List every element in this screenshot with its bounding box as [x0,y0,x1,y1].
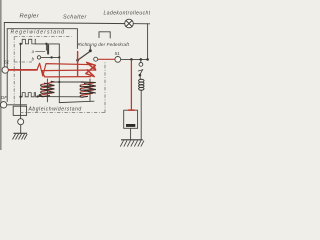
text labels [1,11,154,113]
right coil red loops [81,83,94,96]
switch branch stub [140,59,142,62]
node: right corner junction [146,58,149,61]
wire: coil bottom bus [39,96,80,98]
regulator enclosure box [7,29,77,102]
svg-text:Schalter: Schalter [63,15,87,21]
node: red drop junction [130,58,133,61]
wire: right bus drop to line 51 [147,24,149,59]
svg-text:Richtung der Federkraft: Richtung der Federkraft [78,42,130,47]
switch lever [78,51,90,60]
red arrow tip at box [128,109,134,111]
svg-text:DF: DF [1,95,8,101]
wire: coil top link [51,81,80,83]
wire: relay coil to ground [140,90,142,140]
connector circle left ground branch [18,119,24,125]
dash-dot: inner box top edge [14,36,71,38]
contact a stem [45,44,47,50]
svg-text:Abgleichwiderstand: Abgleichwiderstand [28,107,82,113]
node: relay contact dot [139,74,142,77]
relay lever right [140,70,143,75]
relay coil loops right edge [139,79,144,90]
ground symbol left [13,133,28,139]
node: lever tip dot [89,49,92,52]
red wire from terminal 61 [9,69,37,71]
node: b line to vertical [58,56,60,58]
wire: left bus drop to terminal 61 [3,23,5,67]
lever tick [89,46,91,50]
wire: resistor box stem to ground [130,128,132,139]
contact b line [41,56,60,58]
node: contact b end [50,56,52,58]
wire: stem to ground left [20,125,22,134]
carbon bar inside resistance box [126,124,135,127]
relay contact stub [139,77,141,80]
node: pivot dot [76,59,79,62]
relay upper contact circle [139,63,143,67]
dash-dot: enclosure bottom edge [20,112,105,114]
svg-text:Ladekontrolleuchte: Ladekontrolleuchte [104,11,151,17]
paper background [0,0,150,150]
node: meander2 junction [19,96,21,98]
junction dots [19,43,149,98]
contact a leader line [36,50,46,52]
resistance element box [124,110,138,128]
red pivot post [77,52,79,76]
balancing resistor box [13,106,26,115]
dash-dot enclosure lines [14,37,105,113]
wire: line from terminal 51 to right drop [121,58,148,60]
svg-text:61: 61 [4,60,10,65]
svg-text:Regler: Regler [20,14,40,20]
wire: top supply bus [4,23,150,24]
right coil dark loops [80,85,96,97]
dash-dot: inner box left edge [13,37,15,104]
wire: regulating resistor feed [35,43,59,45]
node: contact a junction [45,43,47,45]
red drop wire to resistance box [130,61,132,110]
red wire contact to 51 [98,58,115,60]
node: relay branch junction [140,58,143,61]
armature contact bar [47,45,49,53]
resistor meander Abgleich [21,93,39,97]
right coil core [89,79,91,101]
charge indicator lamp [125,19,134,28]
node: meander2 right end [37,95,39,97]
red spring and field elements [9,52,135,111]
relay blade stroke [138,70,143,71]
page left edge shadow [0,0,2,150]
switch bracket above [99,32,110,38]
switch fixed contact circle [94,57,98,61]
dash-dot: contact unit bottom [14,61,32,63]
left coil dark loops [41,81,96,97]
terminal DF circle [0,102,6,108]
node: resistor left junction [19,43,21,45]
red spring zigzag [37,63,96,77]
wire: middle vertical from contacts down [59,44,94,103]
terminal 51 circle [115,57,121,63]
svg-text:Regelwiderstand: Regelwiderstand [11,30,66,36]
red spring right bundle [86,62,96,76]
left coil red loops [41,82,52,95]
left coil core [46,79,48,102]
svg-text:51: 51 [115,51,121,56]
ground symbol right [120,140,144,147]
node: coil bottom junction [39,94,42,97]
resistor R-regel meander [21,39,36,44]
wire: left ground branch vertical [20,44,22,115]
terminal 61 circle [2,67,8,73]
wire: stem to connector [20,115,22,118]
contact b circle [37,56,40,59]
terminal DF wire [7,104,27,106]
node: coil link [58,81,60,83]
dash-dot: enclosure right edge [104,62,106,113]
